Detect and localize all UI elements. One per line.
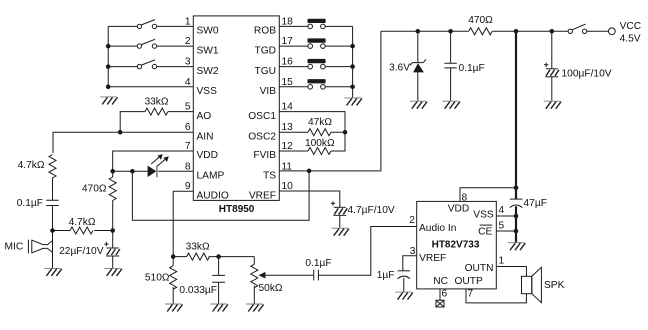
wire VIB pin15 row xyxy=(279,86,352,88)
svg-text:VDD: VDD xyxy=(448,204,470,215)
svg-text:OUTP: OUTP xyxy=(455,276,484,287)
node 0.033µF junction xyxy=(216,254,221,259)
wire CE pin5 xyxy=(496,230,516,232)
svg-text:TS: TS xyxy=(263,171,276,182)
wire AIN pin6 row xyxy=(53,132,193,153)
wire TS pin11 row xyxy=(279,31,381,171)
wire SW1 row xyxy=(108,45,193,47)
svg-text:17: 17 xyxy=(282,36,294,47)
svg-text:HT8950: HT8950 xyxy=(219,204,255,215)
ground MIC xyxy=(44,268,62,276)
svg-text:15: 15 xyxy=(282,77,294,88)
node SW1 bus junction xyxy=(106,44,111,49)
wiper arrow 50kΩ xyxy=(258,272,313,279)
resistor 33kΩ (AO-AIN) xyxy=(145,108,168,115)
svg-text:8: 8 xyxy=(462,192,468,203)
node TS junction xyxy=(307,169,312,174)
wire VDD bus lower (thick) xyxy=(515,206,517,242)
wire TGD pin17 row xyxy=(279,45,352,47)
svg-text:0.1µF: 0.1µF xyxy=(305,258,331,269)
resistor 4.7kΩ (horizontal, mic bias) xyxy=(53,230,71,232)
svg-text:OUTN: OUTN xyxy=(465,263,494,274)
svg-text:HT82V733: HT82V733 xyxy=(432,240,480,251)
svg-text:VREF: VREF xyxy=(419,253,446,264)
svg-text:100µF/10V: 100µF/10V xyxy=(562,69,612,80)
svg-text:SW2: SW2 xyxy=(197,66,219,77)
NC open symbol xyxy=(436,300,444,307)
capacitor 22µF/10V electrolytic xyxy=(104,231,120,269)
node bias junction xyxy=(110,228,115,233)
capacitor 1µF xyxy=(398,271,410,292)
node OSC junction xyxy=(343,130,348,135)
node VSS bus junction xyxy=(106,85,111,90)
node VDD bus top junction xyxy=(514,29,519,34)
svg-text:LAMP: LAMP xyxy=(197,171,225,182)
wire TGU pin16 row xyxy=(279,66,352,68)
IC U1 HT8950 body xyxy=(193,16,279,215)
ground pushbutton bus xyxy=(344,98,362,106)
svg-text:1: 1 xyxy=(499,255,505,266)
wire VDD bus (thick) xyxy=(515,31,517,199)
svg-text:470Ω: 470Ω xyxy=(82,184,107,195)
svg-text:5: 5 xyxy=(185,102,191,113)
svg-text:50kΩ: 50kΩ xyxy=(259,283,283,294)
node HT82V733 VDD tap xyxy=(514,186,519,191)
svg-text:SPK: SPK xyxy=(544,280,565,291)
svg-text:9: 9 xyxy=(185,181,191,192)
wire VREF pin3 xyxy=(403,256,417,271)
svg-text:1µF: 1µF xyxy=(377,270,395,281)
wire AO pin5 xyxy=(120,112,193,133)
resistor 47kΩ xyxy=(308,129,331,136)
node VIB bus junction xyxy=(350,85,355,90)
wire FVIB pin12 xyxy=(279,132,345,151)
wire 4.7k to cap xyxy=(52,178,54,201)
svg-text:510Ω: 510Ω xyxy=(145,273,170,284)
ground 1µF xyxy=(395,292,413,300)
ground SW bus xyxy=(100,97,118,105)
pushbutton ROB xyxy=(308,19,326,29)
wire AUDIO pin9 xyxy=(173,191,193,256)
svg-text:6: 6 xyxy=(185,122,191,133)
ground 510Ω xyxy=(165,304,183,312)
capacitor 0.1µF (mic coupling) xyxy=(46,200,58,205)
pushbutton TGU xyxy=(308,59,326,69)
svg-text:SW1: SW1 xyxy=(197,45,219,56)
svg-text:SW0: SW0 xyxy=(197,26,219,37)
switch SW0 xyxy=(137,20,157,29)
wire OSC2 pin13 xyxy=(279,131,345,133)
svg-text:VREF: VREF xyxy=(249,190,276,201)
wire coupling cap to Audio In xyxy=(319,227,417,276)
switch SW1 xyxy=(137,39,157,48)
wire SW bus vertical xyxy=(107,26,109,86)
U2 pin name CE (active low) xyxy=(478,225,492,237)
svg-text:470Ω: 470Ω xyxy=(468,15,493,26)
svg-text:4.7kΩ: 4.7kΩ xyxy=(18,160,45,171)
node TGD bus junction xyxy=(350,44,355,49)
zener diode 3.6V xyxy=(410,31,426,100)
svg-text:VCC: VCC xyxy=(620,21,642,32)
svg-text:100kΩ: 100kΩ xyxy=(305,138,335,149)
svg-text:4.7kΩ: 4.7kΩ xyxy=(69,217,96,228)
wire VSS pin4 xyxy=(496,215,516,217)
wire VDD pin8 tap xyxy=(460,188,516,202)
svg-text:OSC1: OSC1 xyxy=(248,111,276,122)
node CE junction xyxy=(514,229,519,234)
microphone MIC xyxy=(28,240,52,254)
ground 0.1µF xyxy=(442,101,460,109)
IC U2 HT82V733 body xyxy=(417,201,497,289)
switch SW2 xyxy=(137,60,157,69)
wire pushbutton bus xyxy=(352,26,354,97)
ground 100µF xyxy=(544,101,562,109)
svg-text:1: 1 xyxy=(185,16,191,27)
wire VREF pin10 xyxy=(279,191,340,207)
svg-text:Audio In: Audio In xyxy=(419,223,456,234)
node mic junction xyxy=(50,228,55,233)
pushbutton VIB xyxy=(308,79,326,89)
node TGU bus junction xyxy=(350,64,355,69)
svg-text:VIB: VIB xyxy=(260,86,277,97)
U1 right pin numbers 18-10 xyxy=(282,16,294,192)
speaker SPK xyxy=(522,267,542,302)
capacitor 0.1µF (supply) xyxy=(444,31,456,100)
node VDD/LAMP junction xyxy=(110,169,115,174)
switch power xyxy=(568,24,587,33)
node 0.1µF junction xyxy=(448,29,453,34)
svg-text:47µF: 47µF xyxy=(524,198,547,209)
svg-text:13: 13 xyxy=(282,122,294,133)
svg-text:AUDIO: AUDIO xyxy=(197,190,229,201)
resistor 470Ω (LED/bias) xyxy=(112,171,114,177)
svg-text:VSS: VSS xyxy=(197,86,218,97)
svg-text:AIN: AIN xyxy=(197,131,214,142)
resistor 33kΩ (feedback) xyxy=(173,256,186,258)
svg-text:0.1µF: 0.1µF xyxy=(17,198,43,209)
ground zener xyxy=(410,101,428,109)
svg-text:6: 6 xyxy=(442,288,448,299)
capacitor 47µF xyxy=(510,199,523,208)
svg-text:16: 16 xyxy=(282,57,294,68)
svg-text:22µF/10V: 22µF/10V xyxy=(59,246,104,257)
LED (LAMP indicator) xyxy=(148,154,169,177)
wire cap to mic node xyxy=(52,206,54,269)
svg-text:5: 5 xyxy=(499,221,505,232)
node 510Ω/33kΩ junction xyxy=(171,254,176,259)
svg-text:0.1µF: 0.1µF xyxy=(459,63,485,74)
svg-text:33kΩ: 33kΩ xyxy=(144,97,168,108)
svg-text:0.033µF: 0.033µF xyxy=(179,285,217,296)
capacitor 0.033µF xyxy=(212,257,225,304)
svg-text:VSS: VSS xyxy=(473,209,494,220)
U1 left pin names xyxy=(197,26,229,202)
U1 left pin numbers 1-9 xyxy=(185,16,191,192)
wire OSC1 pin14 xyxy=(279,112,345,133)
node AIN junction xyxy=(118,130,123,135)
resistor 510Ω xyxy=(172,257,174,266)
svg-text:VDD: VDD xyxy=(197,150,219,161)
wire LAMP pin8 row xyxy=(113,170,194,172)
capacitor 4.7µF/10V electrolytic xyxy=(331,201,348,228)
wire VSS row xyxy=(108,86,193,88)
svg-text:TGD: TGD xyxy=(254,45,276,56)
svg-text:8: 8 xyxy=(185,161,191,172)
svg-text:TGU: TGU xyxy=(254,66,276,77)
resistor 100kΩ xyxy=(308,148,331,155)
resistor 470Ω (supply) xyxy=(469,28,492,35)
svg-text:CE: CE xyxy=(478,226,492,237)
ground 4.7µF xyxy=(332,228,350,236)
svg-text:OSC2: OSC2 xyxy=(248,131,276,142)
wire TS loop (pin11 to LED node) xyxy=(132,171,309,220)
potentiometer 50kΩ xyxy=(253,257,255,265)
node SW2 bus junction xyxy=(106,64,111,69)
svg-text:47kΩ: 47kΩ xyxy=(308,117,332,128)
wire NC pin6 stub xyxy=(439,289,441,300)
svg-text:4.5V: 4.5V xyxy=(620,33,641,44)
U1 right pin names xyxy=(248,26,276,202)
ground 47µF bus xyxy=(508,243,526,251)
svg-text:AO: AO xyxy=(197,111,212,122)
svg-text:ROB: ROB xyxy=(254,26,276,37)
wire OUTN pin1 xyxy=(496,267,526,277)
svg-text:2: 2 xyxy=(185,36,191,47)
pushbutton TGD xyxy=(308,38,326,48)
wire VCC rail xyxy=(381,30,608,32)
svg-text:7: 7 xyxy=(467,288,473,299)
wire OUTP pin7 xyxy=(466,289,526,303)
node LED anode junction xyxy=(130,169,135,174)
svg-text:7: 7 xyxy=(185,141,191,152)
node 100µF junction xyxy=(550,29,555,34)
node VSS junction xyxy=(514,214,519,219)
ground 50kΩ xyxy=(246,304,264,312)
svg-text:4: 4 xyxy=(499,205,505,216)
ground 22µF xyxy=(104,268,122,276)
wire SW0 row xyxy=(108,25,193,27)
svg-text:14: 14 xyxy=(282,102,294,113)
svg-text:12: 12 xyxy=(282,141,294,152)
capacitor 0.1µF (audio coupling) xyxy=(314,270,319,281)
wire SW2 row xyxy=(108,66,193,68)
terminal VCC xyxy=(608,28,615,35)
wire ROB pin18 row xyxy=(279,25,352,27)
svg-text:NC: NC xyxy=(433,276,448,287)
svg-text:FVIB: FVIB xyxy=(253,150,276,161)
resistor 4.7kΩ (mic pull-up) xyxy=(49,155,56,178)
ground 0.033µF xyxy=(210,304,228,312)
svg-text:4.7µF/10V: 4.7µF/10V xyxy=(348,205,395,216)
svg-text:MIC: MIC xyxy=(5,241,24,252)
svg-text:33kΩ: 33kΩ xyxy=(186,242,210,253)
svg-text:4: 4 xyxy=(185,77,191,88)
node zener junction xyxy=(416,29,421,34)
capacitor 100µF/10V electrolytic xyxy=(544,31,559,100)
svg-text:3.6V: 3.6V xyxy=(389,62,410,73)
wire VDD pin7 xyxy=(113,151,194,171)
svg-text:18: 18 xyxy=(282,16,294,27)
svg-text:3: 3 xyxy=(185,57,191,68)
svg-text:2: 2 xyxy=(409,215,415,226)
